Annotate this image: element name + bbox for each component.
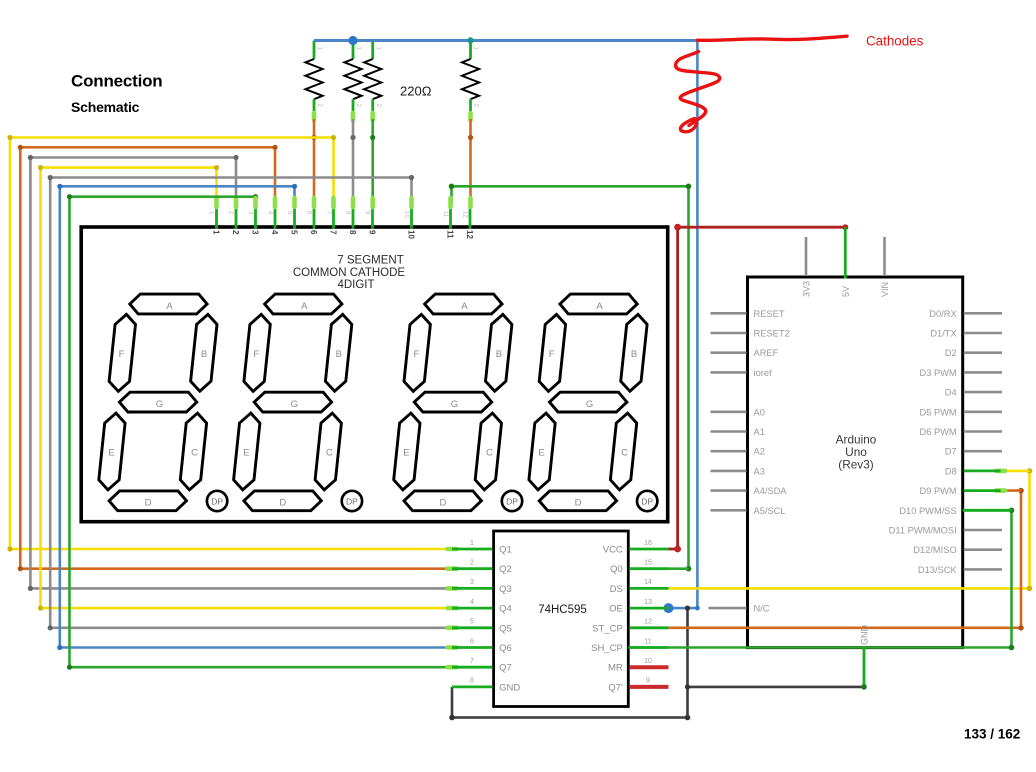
svg-text:4: 4 xyxy=(470,599,474,606)
svg-text:D11 PWM/MOSI: D11 PWM/MOSI xyxy=(889,526,957,536)
svg-text:Cathodes: Cathodes xyxy=(866,34,924,49)
svg-text:Q0: Q0 xyxy=(610,564,623,575)
svg-text:A: A xyxy=(596,301,603,312)
svg-text:AREF: AREF xyxy=(754,348,779,358)
svg-text:G: G xyxy=(291,399,298,410)
svg-text:G: G xyxy=(451,399,458,410)
svg-text:(Rev3): (Rev3) xyxy=(838,458,873,472)
svg-text:Q6: Q6 xyxy=(499,643,512,654)
svg-text:12: 12 xyxy=(465,230,474,239)
svg-text:Q4: Q4 xyxy=(499,604,512,615)
svg-text:A3: A3 xyxy=(754,466,765,476)
svg-text:B: B xyxy=(336,349,342,360)
svg-text:8: 8 xyxy=(470,678,474,685)
svg-text:5: 5 xyxy=(470,619,474,626)
svg-text:DP: DP xyxy=(506,496,518,506)
svg-text:6: 6 xyxy=(309,230,318,235)
svg-text:E: E xyxy=(243,448,249,459)
svg-text:13: 13 xyxy=(644,599,652,606)
svg-text:RESET2: RESET2 xyxy=(754,329,790,339)
svg-text:G: G xyxy=(156,399,163,410)
svg-text:GND: GND xyxy=(499,682,520,693)
svg-text:GND: GND xyxy=(860,625,870,646)
svg-text:16: 16 xyxy=(644,540,652,547)
svg-text:C: C xyxy=(326,448,333,459)
svg-text:2: 2 xyxy=(470,560,474,567)
svg-text:D4: D4 xyxy=(945,388,957,398)
svg-text:C: C xyxy=(191,448,198,459)
svg-text:A4/SDA: A4/SDA xyxy=(754,486,788,496)
svg-text:133 / 162: 133 / 162 xyxy=(964,727,1020,742)
svg-text:A1: A1 xyxy=(754,427,765,437)
svg-text:COMMON CATHODE: COMMON CATHODE xyxy=(293,267,406,279)
svg-text:10: 10 xyxy=(406,230,415,239)
svg-text:E: E xyxy=(108,448,114,459)
svg-text:D: D xyxy=(279,498,286,509)
svg-text:D12/MISO: D12/MISO xyxy=(913,545,956,555)
svg-text:Connection: Connection xyxy=(71,72,163,91)
svg-text:11: 11 xyxy=(644,638,651,645)
svg-text:D: D xyxy=(439,498,446,509)
svg-text:N/C: N/C xyxy=(754,604,770,614)
svg-text:5: 5 xyxy=(289,230,298,235)
svg-text:9: 9 xyxy=(367,230,376,235)
svg-text:Q1: Q1 xyxy=(499,545,512,556)
svg-text:MR: MR xyxy=(608,663,623,674)
svg-text:1: 1 xyxy=(470,540,474,547)
svg-text:3: 3 xyxy=(250,230,259,235)
svg-text:D1/TX: D1/TX xyxy=(930,329,956,339)
svg-text:ioref: ioref xyxy=(754,368,773,378)
svg-text:D6 PWM: D6 PWM xyxy=(919,427,956,437)
svg-text:D: D xyxy=(575,498,582,509)
svg-text:D5 PWM: D5 PWM xyxy=(919,407,956,417)
svg-text:8: 8 xyxy=(348,230,357,235)
svg-text:C: C xyxy=(486,448,493,459)
svg-text:D0/RX: D0/RX xyxy=(929,309,956,319)
svg-text:3: 3 xyxy=(470,579,474,586)
svg-text:F: F xyxy=(413,349,419,360)
svg-text:Q7': Q7' xyxy=(608,682,623,693)
svg-text:RESET: RESET xyxy=(754,309,785,319)
svg-text:ST_CP: ST_CP xyxy=(592,623,623,634)
svg-text:7: 7 xyxy=(328,230,337,235)
svg-text:11: 11 xyxy=(442,211,448,218)
svg-text:A: A xyxy=(461,301,468,312)
svg-text:1: 1 xyxy=(211,230,220,235)
svg-text:DP: DP xyxy=(211,496,223,506)
svg-text:D7: D7 xyxy=(945,447,957,457)
svg-text:74HC595: 74HC595 xyxy=(538,604,587,616)
svg-text:A: A xyxy=(166,301,173,312)
svg-text:E: E xyxy=(538,448,544,459)
svg-text:220Ω: 220Ω xyxy=(400,84,432,99)
svg-text:A5/SCL: A5/SCL xyxy=(754,506,786,516)
svg-text:B: B xyxy=(201,349,207,360)
svg-text:F: F xyxy=(119,349,125,360)
svg-text:3V3: 3V3 xyxy=(802,281,812,297)
svg-text:DS: DS xyxy=(610,584,623,595)
svg-text:4: 4 xyxy=(270,230,279,235)
svg-text:Q5: Q5 xyxy=(499,623,512,634)
svg-text:G: G xyxy=(586,399,593,410)
svg-text:9: 9 xyxy=(646,678,650,685)
svg-text:2: 2 xyxy=(231,230,240,235)
svg-text:7: 7 xyxy=(470,658,474,665)
svg-text:11: 11 xyxy=(445,230,454,239)
svg-text:12: 12 xyxy=(644,619,652,626)
svg-text:SH_CP: SH_CP xyxy=(591,643,623,654)
svg-text:D9 PWM: D9 PWM xyxy=(919,486,956,496)
svg-text:F: F xyxy=(549,349,555,360)
svg-text:B: B xyxy=(631,349,637,360)
svg-text:A0: A0 xyxy=(754,407,765,417)
svg-text:6: 6 xyxy=(470,638,474,645)
svg-text:D2: D2 xyxy=(945,348,957,358)
svg-text:OE: OE xyxy=(609,604,623,615)
svg-text:Schematic: Schematic xyxy=(71,99,140,115)
svg-text:E: E xyxy=(403,448,409,459)
svg-text:5V: 5V xyxy=(841,286,851,297)
svg-text:4DIGIT: 4DIGIT xyxy=(337,279,374,291)
svg-text:Q7: Q7 xyxy=(499,663,512,674)
svg-text:VIN: VIN xyxy=(880,282,890,297)
svg-text:D10 PWM/SS: D10 PWM/SS xyxy=(899,506,956,516)
svg-text:C: C xyxy=(621,448,628,459)
svg-text:DP: DP xyxy=(346,496,358,506)
svg-text:D3 PWM: D3 PWM xyxy=(919,368,956,378)
svg-text:12: 12 xyxy=(462,211,468,218)
svg-text:Q3: Q3 xyxy=(499,584,512,595)
svg-text:D8: D8 xyxy=(945,466,957,476)
svg-text:D13/SCK: D13/SCK xyxy=(918,565,958,575)
svg-text:15: 15 xyxy=(644,560,652,567)
svg-text:14: 14 xyxy=(644,579,652,586)
svg-text:B: B xyxy=(496,349,502,360)
svg-text:10: 10 xyxy=(644,658,652,665)
svg-text:D: D xyxy=(145,498,152,509)
svg-text:DP: DP xyxy=(641,496,653,506)
svg-text:Q2: Q2 xyxy=(499,564,512,575)
svg-text:10: 10 xyxy=(403,211,409,218)
svg-text:F: F xyxy=(253,349,259,360)
svg-text:A2: A2 xyxy=(754,447,765,457)
svg-text:VCC: VCC xyxy=(603,545,623,556)
svg-text:A: A xyxy=(301,301,308,312)
svg-text:7 SEGMENT: 7 SEGMENT xyxy=(337,255,403,267)
